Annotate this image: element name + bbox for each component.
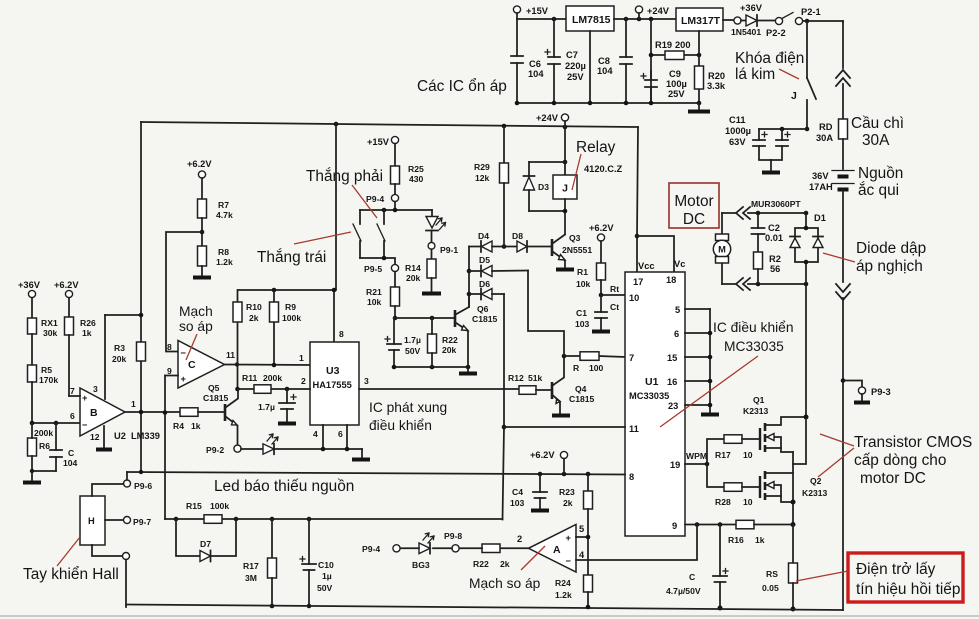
resistor R6 200k xyxy=(28,423,54,471)
svg-text:3: 3 xyxy=(93,384,98,394)
svg-text:1k: 1k xyxy=(191,421,201,431)
svg-text:20k: 20k xyxy=(442,345,457,355)
wire R10/R9 supply link xyxy=(238,289,334,291)
svg-text:+6.2V: +6.2V xyxy=(187,159,212,169)
svg-text:5: 5 xyxy=(675,305,680,315)
mosfet Q2 K2313 xyxy=(760,471,828,505)
note Mach so ap upper xyxy=(179,304,213,360)
svg-text:LM339: LM339 xyxy=(131,431,160,441)
svg-text:+: + xyxy=(181,374,187,384)
wire R15 net xyxy=(176,518,503,520)
wire unused pin bus xyxy=(708,309,713,413)
svg-text:R: R xyxy=(573,363,580,373)
resistor R21 10k xyxy=(366,287,400,320)
svg-text:ắc qui: ắc qui xyxy=(858,182,899,199)
pin 5 wire xyxy=(675,305,710,315)
svg-text:R5: R5 xyxy=(41,365,52,375)
svg-text:18: 18 xyxy=(666,275,676,285)
svg-text:6: 6 xyxy=(674,329,679,339)
transistor Q4 C1815 xyxy=(552,356,595,416)
resistor R4 1k xyxy=(173,408,225,431)
svg-text:6: 6 xyxy=(70,411,75,421)
resistor R10 2k xyxy=(233,290,262,365)
svg-text:200k: 200k xyxy=(263,373,282,383)
svg-text:17AH: 17AH xyxy=(809,182,833,192)
svg-text:RS: RS xyxy=(766,569,778,579)
pin 9 wire xyxy=(672,521,736,531)
svg-text:11: 11 xyxy=(226,350,235,360)
svg-text:100µ: 100µ xyxy=(666,79,687,89)
svg-text:Relay: Relay xyxy=(576,139,616,156)
svg-text:23: 23 xyxy=(668,401,678,411)
svg-text:17: 17 xyxy=(633,277,643,287)
svg-text:+36V: +36V xyxy=(740,3,763,13)
svg-text:MC33035: MC33035 xyxy=(629,391,669,401)
svg-text:2: 2 xyxy=(517,534,522,544)
svg-text:Q4: Q4 xyxy=(575,384,587,394)
svg-text:lá kim: lá kim xyxy=(735,66,775,83)
connector P9-4 xyxy=(366,194,399,210)
resistor R29 12k xyxy=(474,162,509,247)
capacitor C9 100u 25V xyxy=(641,69,687,103)
svg-text:D6: D6 xyxy=(479,279,490,289)
svg-text:1: 1 xyxy=(131,399,136,409)
right rail to fuse xyxy=(842,84,844,119)
svg-text:D5: D5 xyxy=(479,255,490,265)
svg-text:R29: R29 xyxy=(474,162,490,172)
capacitor C7 220u 25V xyxy=(545,19,586,103)
wire Vc feed xyxy=(637,236,674,271)
svg-text:2: 2 xyxy=(301,376,306,386)
wire U3 pin8 supply lead xyxy=(332,288,344,342)
svg-text:30A: 30A xyxy=(862,132,890,149)
svg-text:H: H xyxy=(88,516,95,526)
svg-text:200k: 200k xyxy=(34,428,53,438)
transistor Q5 C1815 xyxy=(203,383,238,445)
svg-text:R26: R26 xyxy=(80,318,96,328)
resistor R8 1.2k xyxy=(193,246,233,278)
svg-text:Q5: Q5 xyxy=(208,383,220,393)
note Tay khien Hall xyxy=(23,537,119,583)
resistor R9 100k xyxy=(270,290,302,367)
svg-text:R20: R20 xyxy=(708,71,725,81)
fuse Cau chi 30A xyxy=(839,115,905,149)
node C11 junction xyxy=(805,127,810,132)
svg-text:điều khiển: điều khiển xyxy=(369,418,432,433)
note Relay xyxy=(572,139,616,190)
svg-text:100k: 100k xyxy=(282,313,301,323)
svg-text:30k: 30k xyxy=(43,328,58,338)
svg-text:Transistor CMOS: Transistor CMOS xyxy=(854,434,972,451)
resistor RS 0.05 sense xyxy=(762,525,798,612)
svg-text:D3: D3 xyxy=(538,182,549,192)
svg-text:10: 10 xyxy=(743,450,753,460)
svg-text:1.7µ: 1.7µ xyxy=(258,402,275,412)
IC U3 HA17555 xyxy=(310,342,359,425)
svg-text:1N5401: 1N5401 xyxy=(731,27,761,37)
note Khoa dien la kim xyxy=(735,50,804,83)
svg-text:3: 3 xyxy=(364,376,369,386)
svg-text:6: 6 xyxy=(338,429,343,439)
wire brake switch top xyxy=(360,209,432,211)
op-amp U2C comparator xyxy=(167,341,225,389)
note IC phat xung dieu khien xyxy=(369,400,447,433)
svg-text:19: 19 xyxy=(670,460,680,470)
terminal +6.2V R7 xyxy=(187,159,212,199)
svg-text:1: 1 xyxy=(299,353,304,363)
svg-text:C: C xyxy=(68,448,74,458)
label C11 1000u 63V xyxy=(725,115,751,147)
svg-text:+36V: +36V xyxy=(18,280,41,290)
svg-text:+24V: +24V xyxy=(647,6,670,16)
svg-text:C1815: C1815 xyxy=(203,393,229,403)
svg-text:P9-2: P9-2 xyxy=(206,445,224,455)
svg-text:R28: R28 xyxy=(715,497,731,507)
wire R29 rail upper xyxy=(503,127,505,163)
svg-text:R8: R8 xyxy=(218,247,229,257)
svg-text:IC điều khiển: IC điều khiển xyxy=(713,320,794,335)
capacitor C11 left unit xyxy=(753,129,771,160)
wire motor node down to totem midpoint xyxy=(793,418,806,464)
svg-text:+6.2V: +6.2V xyxy=(589,223,614,233)
svg-text:Q6: Q6 xyxy=(477,304,489,314)
connector P9-8 xyxy=(444,531,462,552)
note Thang trai xyxy=(257,232,351,266)
diode D8 xyxy=(512,231,552,252)
switch thang trai xyxy=(377,210,385,258)
svg-text:MC33035: MC33035 xyxy=(724,339,784,354)
wire R10 bottom to pin2 node xyxy=(237,365,239,390)
note Diode dap ap nghich xyxy=(823,240,926,275)
connector P9-6 xyxy=(124,472,153,491)
svg-text:50V: 50V xyxy=(317,583,333,593)
svg-text:63V: 63V xyxy=(729,137,746,147)
svg-text:P9-3: P9-3 xyxy=(871,387,891,397)
hall sensor H xyxy=(80,484,124,556)
svg-text:cấp dòng cho: cấp dòng cho xyxy=(854,452,946,469)
svg-text:tín hiệu hồi tiếp: tín hiệu hồi tiếp xyxy=(856,581,960,598)
svg-text:Thắng trái: Thắng trái xyxy=(257,249,326,266)
svg-text:8: 8 xyxy=(629,472,634,482)
svg-text:5: 5 xyxy=(579,524,584,534)
svg-text:7: 7 xyxy=(70,386,75,396)
resistor R23 2k xyxy=(559,474,593,575)
resistor R20 3.3k xyxy=(695,55,726,103)
svg-text:Motor: Motor xyxy=(674,193,713,210)
diode D5 xyxy=(469,255,528,277)
resistor R24 1.2k xyxy=(555,575,593,609)
svg-text:R17: R17 xyxy=(243,561,259,571)
svg-text:WPM: WPM xyxy=(686,451,707,461)
svg-text:Q3: Q3 xyxy=(569,233,581,243)
ground R6/C xyxy=(23,469,56,483)
svg-text:P9-8: P9-8 xyxy=(444,531,462,541)
svg-text:Rt: Rt xyxy=(610,284,619,294)
wire +15V rail to LM7815 xyxy=(517,18,566,20)
resistor R26 1k xyxy=(65,317,96,396)
led P9-1 brake indicator xyxy=(426,210,446,242)
regulator LM7815 xyxy=(566,6,614,31)
terminal +6.2V left xyxy=(54,280,79,317)
wire LM7815 out to LM317T in xyxy=(614,18,676,20)
wire totem midpoint x793 xyxy=(792,452,794,525)
psu ground rail xyxy=(517,102,699,104)
capacitor 1.7u timing xyxy=(258,389,296,424)
svg-text:0.05: 0.05 xyxy=(762,583,779,593)
pin 7 wire opampB plus input xyxy=(69,386,80,396)
resistor RX1 30k xyxy=(28,318,58,365)
svg-text:170k: 170k xyxy=(39,375,58,385)
opampB output pin 1 xyxy=(125,399,180,414)
svg-text:4: 4 xyxy=(579,550,585,560)
motor M xyxy=(713,213,730,284)
ground psu xyxy=(688,103,710,112)
diode D6 xyxy=(469,279,504,300)
svg-text:200: 200 xyxy=(675,40,691,50)
resistor R7 4.7k xyxy=(198,199,233,246)
svg-text:10k: 10k xyxy=(367,297,382,307)
connector P9-1 xyxy=(428,242,458,255)
svg-text:+15V: +15V xyxy=(367,137,390,147)
svg-text:220µ: 220µ xyxy=(565,61,586,71)
resistor R14 20k xyxy=(405,249,441,293)
svg-text:2k: 2k xyxy=(249,313,259,323)
svg-text:4.7k: 4.7k xyxy=(216,210,233,220)
svg-text:LM7815: LM7815 xyxy=(572,14,611,26)
diode 1N5401 xyxy=(731,15,775,37)
wire Q6 emitter net xyxy=(394,366,468,368)
svg-text:+: + xyxy=(566,533,572,543)
connector P9-2 xyxy=(206,445,241,455)
resistor R12 51k xyxy=(508,373,552,394)
svg-text:M: M xyxy=(718,245,726,255)
node dots C8 / +24V / C9 xyxy=(624,17,629,22)
svg-text:104: 104 xyxy=(597,66,613,76)
pin4 wire opampA to pin9 xyxy=(576,525,697,561)
capacitor 1.7u 50V xyxy=(385,318,421,367)
svg-text:25V: 25V xyxy=(668,89,685,99)
pin labels U1 top xyxy=(633,259,685,287)
svg-text:Thắng phải: Thắng phải xyxy=(306,168,383,185)
svg-text:1.2k: 1.2k xyxy=(216,257,233,267)
svg-text:20k: 20k xyxy=(112,354,127,364)
svg-text:so áp: so áp xyxy=(179,319,213,334)
svg-text:Khóa điện: Khóa điện xyxy=(735,50,804,67)
svg-text:12: 12 xyxy=(90,432,100,442)
svg-text:9: 9 xyxy=(167,366,172,376)
right rail battery down xyxy=(842,190,844,282)
svg-text:−: − xyxy=(82,420,88,430)
svg-text:C10: C10 xyxy=(318,560,334,570)
label Nguon ac qui xyxy=(858,165,903,199)
resistor R25 430 xyxy=(391,164,424,194)
svg-text:R3: R3 xyxy=(114,343,125,353)
terminal +15V xyxy=(513,6,548,19)
svg-text:1000µ: 1000µ xyxy=(725,126,751,136)
svg-text:Nguồn: Nguồn xyxy=(858,165,903,182)
resistor R2 56 xyxy=(754,252,781,284)
svg-text:104: 104 xyxy=(528,69,544,79)
svg-text:D1: D1 xyxy=(814,213,826,223)
wire +24V top distribution line xyxy=(141,122,638,127)
resistor R15 100k xyxy=(186,501,229,523)
svg-text:36V: 36V xyxy=(812,171,829,181)
terminal +36V inline xyxy=(723,3,763,24)
label U2 LM339 xyxy=(114,431,160,441)
svg-text:LM317T: LM317T xyxy=(681,15,721,27)
svg-text:Tay khiển Hall: Tay khiển Hall xyxy=(23,566,119,583)
svg-text:K2313: K2313 xyxy=(743,406,769,416)
svg-text:Cầu chì: Cầu chì xyxy=(851,115,904,132)
terminal +6.2V bottom xyxy=(530,450,568,474)
right rail long lower segment to bottom corner xyxy=(842,298,844,610)
led indicator P9-2 xyxy=(241,434,362,454)
svg-text:Diode dập: Diode dập xyxy=(856,240,926,257)
wire C9 rail xyxy=(650,19,652,103)
svg-text:Các IC ổn áp: Các IC ổn áp xyxy=(417,78,507,95)
ground C11 xyxy=(762,160,780,173)
note Transistor CMOS xyxy=(818,434,972,487)
svg-text:áp nghịch: áp nghịch xyxy=(856,258,923,275)
svg-text:+6.2V: +6.2V xyxy=(54,280,79,290)
svg-text:103: 103 xyxy=(575,319,590,329)
svg-text:10: 10 xyxy=(629,293,639,303)
pin 11 wire xyxy=(504,424,639,434)
svg-text:C6: C6 xyxy=(529,59,541,69)
svg-text:P9-1: P9-1 xyxy=(440,245,458,255)
pin5 wire opampA xyxy=(576,535,590,540)
capacitor C6 xyxy=(511,19,544,103)
diode pair D1 xyxy=(790,213,826,284)
IC U1 MC33035 xyxy=(625,272,685,536)
capacitor C2 0.01 xyxy=(752,213,784,252)
svg-text:R7: R7 xyxy=(218,200,229,210)
pin 9 plus input wire xyxy=(165,375,178,377)
terminal +15V brake xyxy=(367,136,399,166)
svg-text:J: J xyxy=(562,183,568,195)
wire opampA input xyxy=(500,534,529,548)
svg-text:20k: 20k xyxy=(406,273,421,283)
svg-text:56: 56 xyxy=(770,264,780,274)
svg-text:DC: DC xyxy=(683,211,705,228)
wire P2-1 to right rail xyxy=(803,21,843,22)
red callout box Dien tro lay tin hieu hoi tiep xyxy=(796,553,963,602)
connector P9-3 xyxy=(841,378,891,402)
svg-text:10k: 10k xyxy=(576,279,591,289)
capacitor C 4.7u/50V xyxy=(666,525,728,611)
wire D5 link to pin7 node xyxy=(528,271,564,357)
connector P2-1 xyxy=(795,7,820,25)
mosfet Q1 K2313 xyxy=(743,395,806,452)
connector P2-2 with switch blade xyxy=(766,13,793,39)
svg-text:HA17555: HA17555 xyxy=(313,380,352,390)
ground Q6 emitter xyxy=(459,365,477,374)
resistor R17 10 gate xyxy=(707,435,760,464)
opampC output pin 11 wire to U3 pin1 xyxy=(225,350,311,367)
svg-text:R19: R19 xyxy=(655,40,672,50)
resistor R1 10k xyxy=(576,263,606,297)
svg-text:D8: D8 xyxy=(512,231,523,241)
svg-text:Ct: Ct xyxy=(610,302,619,312)
svg-text:4.7µ/50V: 4.7µ/50V xyxy=(666,586,701,596)
svg-text:1k: 1k xyxy=(82,328,92,338)
svg-text:IC phát xung: IC phát xung xyxy=(369,400,447,415)
svg-text:J: J xyxy=(791,90,797,102)
pin 16 wire xyxy=(667,377,710,387)
svg-text:R4: R4 xyxy=(173,421,184,431)
svg-text:2k: 2k xyxy=(563,498,573,508)
capacitor C8 xyxy=(597,19,632,103)
wire relay +24V lead xyxy=(564,127,566,175)
right rail fuse to battery xyxy=(842,139,844,169)
svg-text:12k: 12k xyxy=(475,173,490,183)
svg-text:BG3: BG3 xyxy=(412,560,430,570)
svg-text:−: − xyxy=(566,556,572,566)
svg-text:Q2: Q2 xyxy=(810,476,822,486)
svg-text:C4: C4 xyxy=(512,487,523,497)
svg-text:−: − xyxy=(181,348,187,358)
connector P9-5 xyxy=(364,264,399,287)
node dot C7 top xyxy=(552,17,557,22)
svg-text:3M: 3M xyxy=(245,573,257,583)
svg-text:P9-6: P9-6 xyxy=(134,481,152,491)
svg-text:R1: R1 xyxy=(577,267,588,277)
chevron down current marks xyxy=(836,284,850,300)
diode D4 xyxy=(469,231,517,252)
svg-text:Vc: Vc xyxy=(674,259,685,269)
svg-text:R21: R21 xyxy=(366,287,382,297)
svg-text:U1: U1 xyxy=(645,376,659,388)
resistor R22 20k xyxy=(428,318,458,367)
svg-text:4: 4 xyxy=(313,429,318,439)
svg-text:B: B xyxy=(90,407,98,419)
svg-text:Điện trở lấy: Điện trở lấy xyxy=(856,561,936,578)
diode D3 xyxy=(524,162,566,211)
wire Vcc feed x638 xyxy=(637,127,638,271)
svg-text:1.7µ: 1.7µ xyxy=(404,335,421,345)
wire D-or bus x469 xyxy=(468,247,470,308)
wire brake switch bottom xyxy=(360,256,395,265)
resistor R11 200k xyxy=(242,373,282,393)
note Thang phai xyxy=(306,168,383,218)
svg-text:C: C xyxy=(188,359,196,371)
svg-text:MUR3060PT: MUR3060PT xyxy=(751,199,801,209)
capacitor C10 1u 50V xyxy=(300,519,334,608)
capacitor C1 103 xyxy=(575,295,610,332)
svg-text:R24: R24 xyxy=(555,578,571,588)
svg-text:0.01: 0.01 xyxy=(765,233,783,243)
svg-text:Q1: Q1 xyxy=(753,395,765,405)
svg-text:R16: R16 xyxy=(728,535,744,545)
svg-text:P9-5: P9-5 xyxy=(364,264,382,274)
svg-text:U3: U3 xyxy=(326,365,340,377)
wire hall rail down from opampB area xyxy=(165,518,176,520)
svg-text:R2: R2 xyxy=(769,254,781,264)
svg-text:K2313: K2313 xyxy=(802,488,828,498)
ground pin bus xyxy=(701,413,719,417)
svg-text:2N5551: 2N5551 xyxy=(562,245,592,255)
op-amp A comparator xyxy=(529,524,586,572)
wire R7R8 junction to opampC minus xyxy=(166,232,202,352)
svg-text:P2-1: P2-1 xyxy=(801,7,821,17)
svg-text:motor DC: motor DC xyxy=(860,470,926,487)
wire C11 top xyxy=(759,128,807,130)
svg-text:P9-4: P9-4 xyxy=(366,194,384,204)
capacitor C4 103 xyxy=(510,474,549,511)
svg-text:R22: R22 xyxy=(442,335,458,345)
svg-text:R11: R11 xyxy=(242,373,258,383)
switch thang phai xyxy=(353,210,361,258)
